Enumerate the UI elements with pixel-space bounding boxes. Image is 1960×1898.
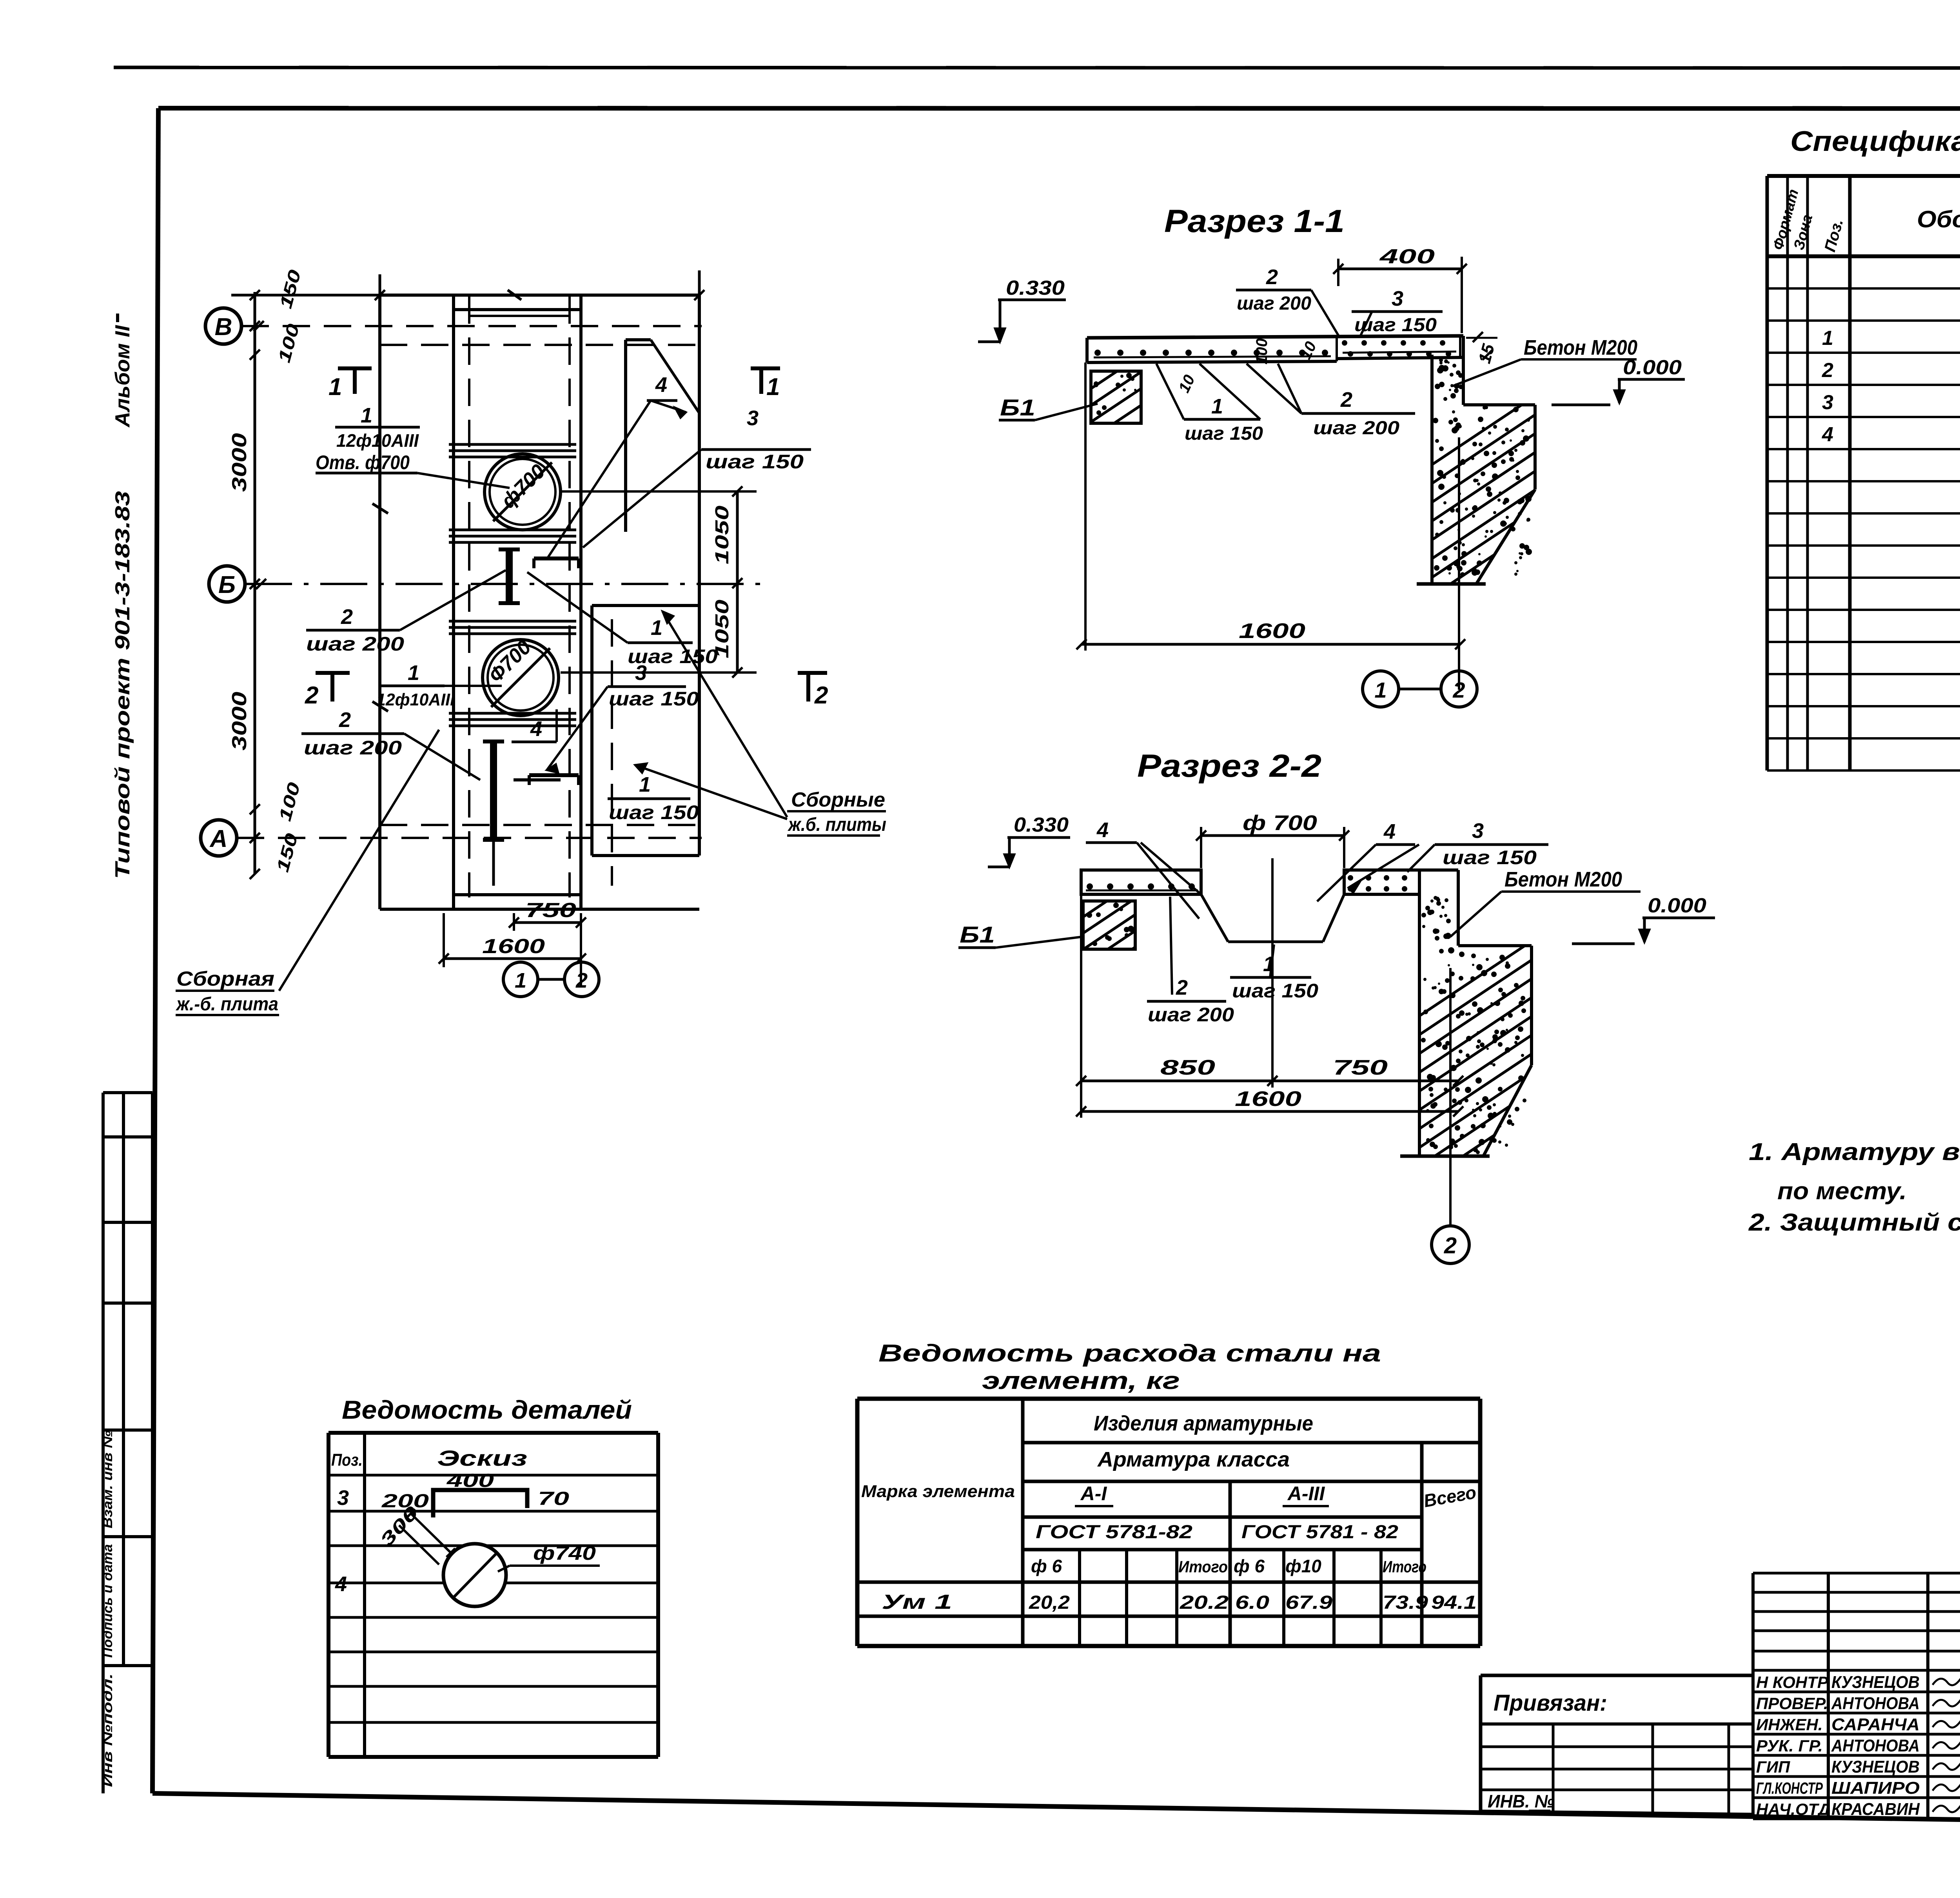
svg-text:20.2: 20.2 <box>1180 1592 1229 1613</box>
steel consumption table text <box>861 1412 1478 1613</box>
callout 4 right (section 2-2) <box>1317 820 1419 901</box>
svg-text:шаг 150: шаг 150 <box>706 451 804 473</box>
svg-text:Отв. ф700: Отв. ф700 <box>316 451 410 473</box>
callout 2 шаг 200 (section 2-2) <box>1147 897 1234 1026</box>
steel consumption table title <box>878 1340 1381 1394</box>
column mark 2 (section 2-2) <box>1432 1226 1469 1264</box>
opening circle ф700 lower <box>483 636 559 716</box>
svg-text:400: 400 <box>1379 245 1435 268</box>
dim 1600 (plan) <box>439 913 586 988</box>
svg-text:Подпись и дата: Подпись и дата <box>100 1544 115 1658</box>
svg-text:А-I: А-I <box>1080 1483 1107 1505</box>
svg-text:1: 1 <box>515 969 526 992</box>
svg-text:Эскиз: Эскиз <box>437 1446 527 1470</box>
bracket bar 3 (lower) <box>514 775 579 785</box>
specification table grid <box>1767 176 1960 770</box>
section 2-2 slab left block <box>1081 870 1201 894</box>
svg-text:шаг 200: шаг 200 <box>1313 418 1399 439</box>
dim 1050 upper <box>561 486 757 678</box>
privyazan table <box>1481 1675 1753 1815</box>
svg-text:Обозначение: Обозначение <box>1917 206 1960 232</box>
svg-text:1: 1 <box>639 773 651 796</box>
svg-text:ШАПИРО: ШАПИРО <box>1831 1778 1920 1798</box>
svg-text:12ф10АIII: 12ф10АIII <box>376 690 455 709</box>
svg-text:шаг 150: шаг 150 <box>1185 423 1263 444</box>
svg-text:2: 2 <box>305 682 318 709</box>
callout 2 шаг 200 (section 1-1 below slab) <box>1247 364 1415 439</box>
callout 1 шаг 150 (section 1-1 below slab) <box>1156 364 1263 444</box>
svg-text:94.1: 94.1 <box>1431 1592 1477 1613</box>
svg-text:шаг 150: шаг 150 <box>1443 847 1537 868</box>
svg-text:1050: 1050 <box>712 600 733 658</box>
svg-text:1600: 1600 <box>1239 619 1305 643</box>
svg-text:2: 2 <box>1176 976 1188 999</box>
label Сборная ж.-б. плита <box>175 730 439 1015</box>
svg-text:1: 1 <box>1374 678 1387 702</box>
bracket bar 3 (upper) <box>534 558 579 568</box>
svg-text:ИНВ. №: ИНВ. № <box>1488 1791 1554 1811</box>
svg-text:2: 2 <box>341 605 353 629</box>
label Сборные ж.б. плиты <box>635 611 886 836</box>
svg-text:3: 3 <box>1822 391 1833 414</box>
plan slab outline <box>372 290 702 909</box>
svg-text:Инв №подл.: Инв №подл. <box>100 1673 115 1787</box>
svg-text:Спецификация монолитного уча: Спецификация монолитного участка покрыти… <box>1790 126 1960 157</box>
svg-text:Ум 1: Ум 1 <box>882 1591 952 1613</box>
rebar line groups <box>449 444 576 726</box>
svg-text:4: 4 <box>335 1572 347 1596</box>
svg-text:ГИП: ГИП <box>1756 1758 1790 1776</box>
plan top edge / dimension line <box>375 270 704 310</box>
svg-text:1: 1 <box>328 373 342 401</box>
svg-text:1600: 1600 <box>1235 1087 1301 1111</box>
section mark Т2 (right) <box>798 671 828 709</box>
svg-text:70: 70 <box>538 1488 569 1509</box>
svg-text:2: 2 <box>339 708 351 732</box>
svg-text:Бетон М200: Бетон М200 <box>1524 336 1637 359</box>
axis line А <box>237 837 702 839</box>
callout 4 upper <box>547 373 686 558</box>
svg-text:КРАСАВИН: КРАСАВИН <box>1831 1800 1920 1819</box>
svg-text:ж.б. плиты: ж.б. плиты <box>787 814 886 835</box>
level mark 0.000 (section 1-1) <box>1552 356 1685 405</box>
svg-text:САРАНЧА: САРАНЧА <box>1831 1715 1920 1734</box>
dim ф700 (section 2-2) <box>1196 811 1349 868</box>
section 2-2 slab right block <box>1344 870 1419 894</box>
svg-text:3000: 3000 <box>228 692 251 750</box>
svg-text:2: 2 <box>814 682 828 709</box>
svg-text:2: 2 <box>1822 359 1833 382</box>
svg-text:Привязан:: Привязан: <box>1494 1690 1607 1716</box>
svg-text:элемент, кг: элемент, кг <box>982 1367 1180 1394</box>
svg-text:Итого: Итого <box>1383 1557 1426 1576</box>
svg-text:0.000: 0.000 <box>1648 894 1706 917</box>
svg-text:0.330: 0.330 <box>1014 814 1069 836</box>
level mark 0.330 (section 2-2) <box>988 814 1070 867</box>
callout 4 lower <box>512 709 557 742</box>
svg-text:ГОСТ 5781 - 82: ГОСТ 5781 - 82 <box>1241 1522 1398 1543</box>
svg-text:НАЧ.ОТД: НАЧ.ОТД <box>1756 1800 1830 1818</box>
axis line В <box>241 325 702 327</box>
dim 750 <box>509 899 586 931</box>
section mark 1 (top-left) <box>328 366 372 401</box>
svg-text:3000: 3000 <box>228 433 251 492</box>
section 2-2 title <box>1137 748 1321 784</box>
svg-text:3: 3 <box>747 406 759 430</box>
svg-text:ф 700: ф 700 <box>1243 811 1317 835</box>
svg-text:0.000: 0.000 <box>1623 356 1682 379</box>
svg-text:4: 4 <box>655 373 667 397</box>
svg-text:Ведомость деталей: Ведомость деталей <box>342 1395 632 1424</box>
svg-text:шаг 200: шаг 200 <box>1237 293 1311 314</box>
steel consumption table grid <box>857 1399 1480 1646</box>
svg-text:Типовой проект 901-3-183.83: Типовой проект 901-3-183.83 <box>111 491 134 879</box>
callout 3 шаг 150 (section 2-2) <box>1407 819 1548 872</box>
svg-text:ГОСТ 5781-82: ГОСТ 5781-82 <box>1036 1522 1192 1543</box>
svg-text:2: 2 <box>1340 388 1352 412</box>
svg-text:АНТОНОВА: АНТОНОВА <box>1831 1694 1920 1713</box>
callout 1 шаг 150 right <box>527 572 718 667</box>
section mark Т1 (top-right) <box>751 366 780 401</box>
svg-text:А-III: А-III <box>1287 1483 1325 1505</box>
callout 3 шаг 150 upper <box>583 406 811 547</box>
details table grid <box>328 1433 658 1757</box>
svg-text:АНТОНОВА: АНТОНОВА <box>1831 1736 1920 1755</box>
label Бетон М200 (section 1-1) <box>1453 336 1637 386</box>
svg-text:750: 750 <box>525 899 576 922</box>
svg-text:67.9: 67.9 <box>1285 1592 1332 1613</box>
svg-text:1: 1 <box>766 373 780 401</box>
svg-text:Итого: Итого <box>1178 1557 1228 1576</box>
section mark 2 (left) <box>305 671 350 709</box>
column marks 1-2 (plan) <box>503 962 599 997</box>
svg-text:3: 3 <box>1392 287 1403 310</box>
dims 850 750 1600 (section 2-2) <box>1076 894 1463 1227</box>
callout 3 шаг 150 lower <box>547 661 699 773</box>
svg-text:шаг 200: шаг 200 <box>1148 1004 1234 1026</box>
column marks 1-2 (section 1-1) <box>1363 671 1477 707</box>
svg-text:2: 2 <box>1452 678 1465 702</box>
svg-text:2: 2 <box>1444 1233 1457 1258</box>
axis mark А <box>201 820 260 856</box>
details table title <box>342 1395 632 1424</box>
svg-text:Разрез 2-2: Разрез 2-2 <box>1137 748 1321 784</box>
svg-text:Арматура класса: Арматура класса <box>1097 1448 1290 1471</box>
svg-text:2: 2 <box>575 969 588 992</box>
sheet top trim line <box>114 67 1960 68</box>
svg-text:1: 1 <box>651 616 662 640</box>
svg-text:4: 4 <box>1383 820 1396 843</box>
svg-text:Б: Б <box>218 571 236 598</box>
small dims 10/100/10/15 (section 1-1) <box>1175 332 1498 395</box>
svg-text:Поз.: Поз. <box>331 1450 363 1470</box>
svg-text:ф740: ф740 <box>533 1542 596 1564</box>
svg-text:750: 750 <box>1333 1056 1388 1079</box>
svg-text:Бетон М200: Бетон М200 <box>1504 868 1622 891</box>
svg-text:ПРОВЕР.: ПРОВЕР. <box>1756 1694 1828 1713</box>
svg-text:Н КОНТР: Н КОНТР <box>1756 1673 1829 1691</box>
notes text <box>1748 1138 1960 1236</box>
svg-text:РУК. ГР.: РУК. ГР. <box>1756 1737 1823 1755</box>
svg-text:1: 1 <box>408 661 419 685</box>
level mark 0.000 (section 2-2) <box>1572 894 1715 944</box>
svg-text:Сборная: Сборная <box>176 968 274 990</box>
svg-text:Альбом II: Альбом II <box>111 324 134 428</box>
specification table content <box>1822 262 1960 575</box>
level mark 0.330 (section 1-1) <box>978 277 1066 342</box>
svg-text:100: 100 <box>1253 338 1270 364</box>
svg-text:ГЛ.КОНСТР: ГЛ.КОНСТР <box>1756 1779 1823 1797</box>
svg-text:1: 1 <box>1822 327 1833 350</box>
axis line Б <box>245 583 768 585</box>
specification table title <box>1790 126 1960 157</box>
details table content <box>331 1446 600 1606</box>
svg-text:Марка элемента: Марка элемента <box>861 1482 1015 1501</box>
callout 1 12ф10АIII upper <box>316 404 510 488</box>
callout 1 12ф10АIII lower <box>376 661 502 709</box>
svg-text:4: 4 <box>530 717 542 741</box>
specification table header <box>1770 187 1960 254</box>
svg-text:0.330: 0.330 <box>1006 277 1065 299</box>
svg-text:Изделия арматурные: Изделия арматурные <box>1094 1412 1313 1435</box>
svg-text:1: 1 <box>361 404 372 427</box>
svg-text:2. Защитный слой бетона - 10: 2. Защитный слой бетона - 10мм. <box>1748 1209 1960 1236</box>
svg-text:Разрез 1-1: Разрез 1-1 <box>1164 203 1345 239</box>
axis mark В <box>205 308 264 344</box>
svg-text:1. Арматуру в местах отверст: 1. Арматуру в местах отверстий вырезать <box>1749 1138 1960 1166</box>
callout 2 шаг 200 (section 1-1 top) <box>1236 265 1340 338</box>
opening circle ф700 upper <box>485 454 561 530</box>
svg-text:1: 1 <box>1211 395 1223 418</box>
svg-text:3: 3 <box>337 1486 349 1510</box>
svg-text:400: 400 <box>446 1470 494 1491</box>
plan vertical dimension chain 3000+3000 <box>228 268 384 879</box>
rotated project title (left margin) <box>111 314 134 879</box>
title block signature table <box>1753 1573 1960 1819</box>
svg-text:шаг 150: шаг 150 <box>1232 980 1318 1002</box>
dim 400 (section 1-1) <box>1333 245 1467 333</box>
svg-text:4: 4 <box>1096 818 1109 842</box>
left inventory stamp strip <box>100 1093 152 1793</box>
callout 4 left (section 2-2) <box>1086 818 1201 919</box>
svg-text:6.0: 6.0 <box>1235 1592 1269 1613</box>
svg-text:Ведомость расхода стали на: Ведомость расхода стали на <box>878 1340 1381 1367</box>
svg-text:12ф10АIII: 12ф10АIII <box>336 430 419 451</box>
axis mark Б <box>209 566 266 602</box>
section 1-1 slab <box>1087 336 1463 363</box>
svg-text:ИНЖЕН.: ИНЖЕН. <box>1756 1715 1823 1734</box>
svg-text:Сборные: Сборные <box>791 789 885 811</box>
callout 2 шаг 200 lower <box>301 708 480 780</box>
callout 3 шаг 150 (section 1-1 top) <box>1352 287 1443 336</box>
svg-text:2: 2 <box>1266 265 1278 289</box>
svg-text:ж.-б. плита: ж.-б. плита <box>175 994 278 1015</box>
svg-text:ф 6: ф 6 <box>1234 1556 1265 1576</box>
svg-text:ф10: ф10 <box>1285 1556 1321 1576</box>
svg-text:В: В <box>215 314 232 341</box>
svg-text:1050: 1050 <box>712 506 733 564</box>
bar mark 2 (upper, I-shaped) <box>499 549 520 603</box>
svg-text:73.9: 73.9 <box>1383 1592 1428 1613</box>
dim 1600 (section 1-1) <box>1076 363 1465 690</box>
svg-text:Взам. инв №: Взам. инв № <box>100 1430 115 1528</box>
callout 1 шаг 150 (section 2-2) <box>1230 944 1318 1002</box>
label Бетон М200 (section 2-2) <box>1450 868 1641 937</box>
svg-text:1600: 1600 <box>482 935 545 958</box>
svg-text:КУЗНЕЦОВ: КУЗНЕЦОВ <box>1831 1757 1920 1777</box>
svg-text:шаг 150: шаг 150 <box>609 688 699 710</box>
svg-text:Б1: Б1 <box>1000 395 1035 421</box>
section 1-1 title <box>1164 203 1345 239</box>
bar mark 2 (lower, I-shaped) <box>483 741 504 886</box>
svg-text:ф 6: ф 6 <box>1031 1556 1062 1576</box>
callout 2 шаг 200 left <box>306 570 506 655</box>
svg-text:шаг 200: шаг 200 <box>304 737 402 759</box>
svg-text:шаг 200: шаг 200 <box>306 633 404 655</box>
svg-text:4: 4 <box>1822 423 1833 446</box>
label Б1 (section 1-1) <box>999 395 1098 421</box>
svg-text:3: 3 <box>1472 819 1484 843</box>
section 2-2 opening profile <box>1201 858 1344 980</box>
callout 1 шаг 150 bottom <box>608 773 699 823</box>
svg-text:Б1: Б1 <box>960 922 995 948</box>
svg-text:20,2: 20,2 <box>1029 1592 1070 1613</box>
svg-text:КУЗНЕЦОВ: КУЗНЕЦОВ <box>1831 1673 1920 1692</box>
label Б1 (section 2-2) <box>958 922 1083 948</box>
svg-text:А: А <box>209 825 228 852</box>
svg-text:шаг 150: шаг 150 <box>609 801 699 823</box>
svg-text:850: 850 <box>1160 1056 1215 1079</box>
svg-text:по месту.: по месту. <box>1777 1178 1907 1205</box>
